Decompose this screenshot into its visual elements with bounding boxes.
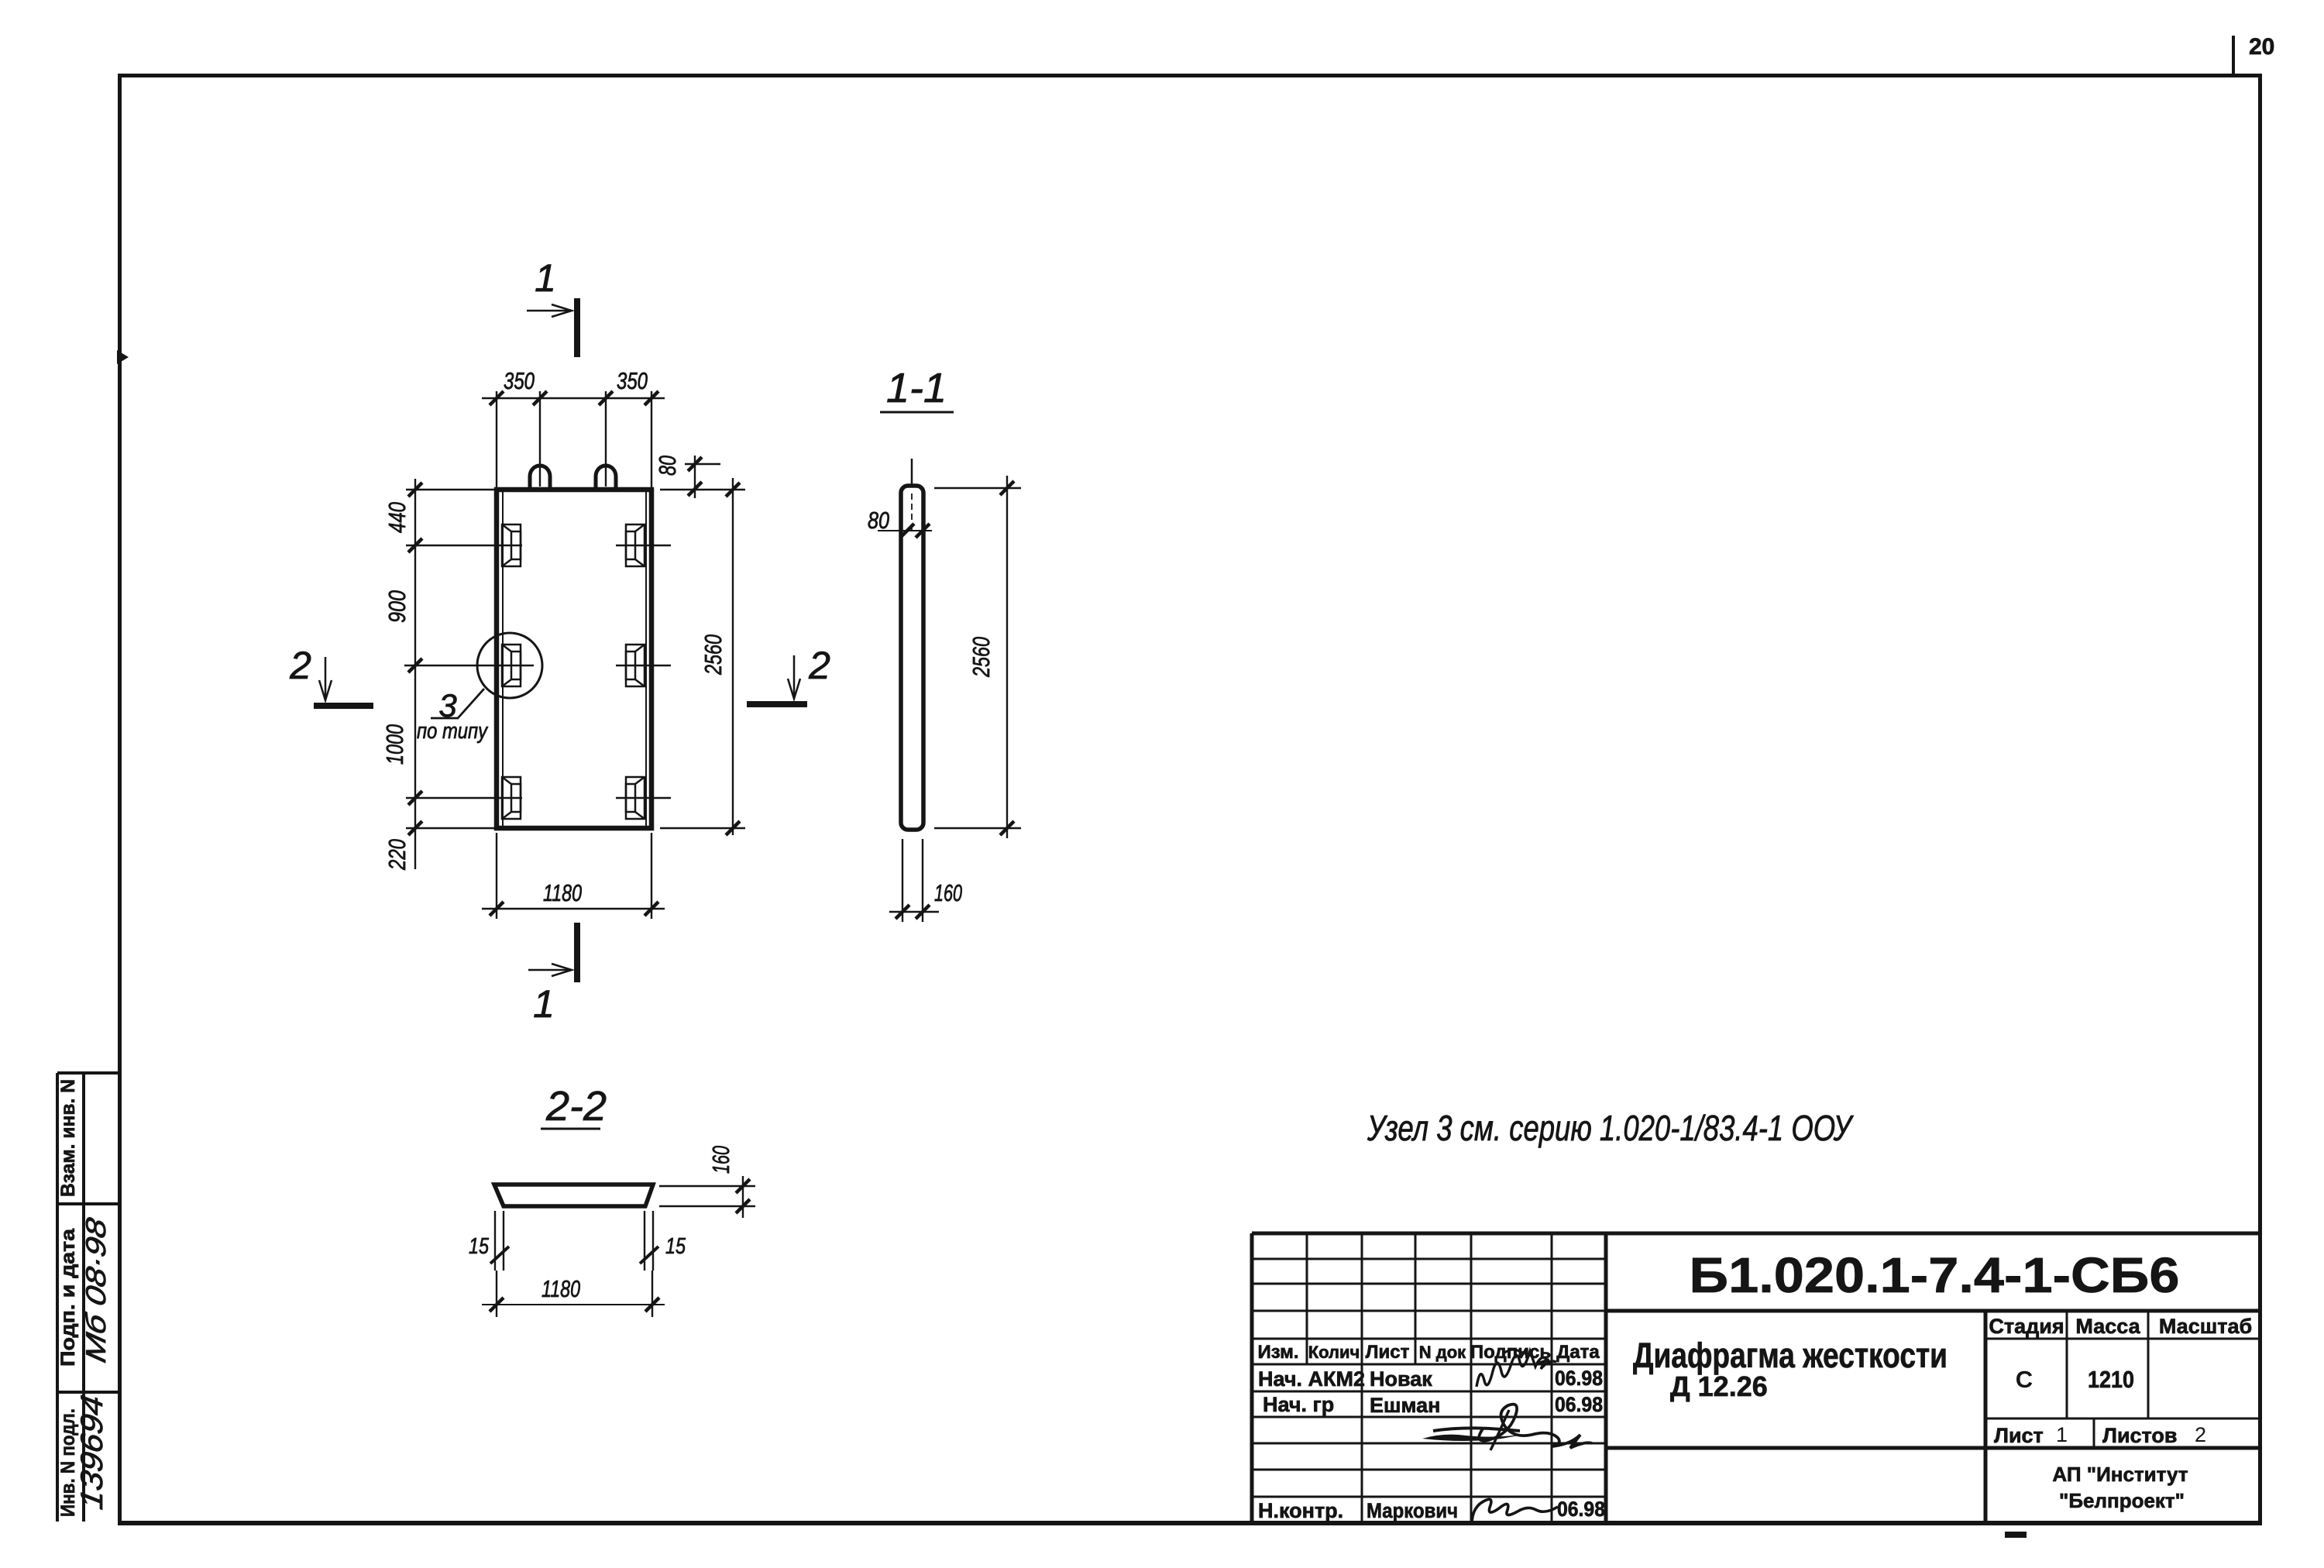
- svg-text:Узел 3 см. серию 1.020-1/83.4-: Узел 3 см. серию 1.020-1/83.4-1 ООУ: [1367, 1108, 1854, 1148]
- sheet frame left border: [118, 74, 122, 1525]
- embedded plate mid-right: [626, 645, 645, 686]
- centerlines of plates: [404, 545, 671, 798]
- svg-text:Ешман: Ешман: [1370, 1394, 1440, 1417]
- fold mark on left border: [117, 350, 129, 364]
- svg-text:15: 15: [665, 1234, 686, 1259]
- svg-text:06.98: 06.98: [1557, 1498, 1605, 1521]
- dim 80 section: [878, 530, 932, 531]
- panel section outline: [901, 486, 923, 830]
- svg-text:1210: 1210: [2088, 1366, 2134, 1393]
- svg-text:2560: 2560: [968, 637, 995, 678]
- svg-text:по типу: по типу: [417, 719, 488, 744]
- svg-text:Лист: Лист: [1366, 1342, 1410, 1363]
- embedded plate top-left: [502, 524, 521, 566]
- stage/mass/scale columns: [1985, 1311, 2260, 1448]
- svg-text:1180: 1180: [541, 1275, 580, 1302]
- svg-text:160: 160: [934, 879, 962, 906]
- sheet frame top border: [118, 74, 2262, 77]
- dashed loop axis: [911, 493, 913, 530]
- svg-text:Нач. гр: Нач. гр: [1263, 1393, 1334, 1416]
- left sidebar table: [57, 1073, 118, 1522]
- embedded plate bottom-left: [502, 777, 521, 819]
- svg-text:139694: 139694: [74, 1393, 109, 1512]
- svg-text:Изм.: Изм.: [1257, 1342, 1298, 1363]
- svg-text:80: 80: [654, 456, 681, 476]
- dim 2560 section: [934, 476, 1021, 838]
- svg-text:Взам. инв. N: Взам. инв. N: [57, 1079, 79, 1197]
- smudge stamp in empty row: [1422, 1434, 1528, 1441]
- embedded plate mid-left: [502, 645, 521, 686]
- dim 1180 bottom: [482, 1304, 665, 1305]
- svg-text:3: 3: [438, 687, 456, 724]
- inner edge line left: [502, 491, 504, 827]
- svg-text:Масштаб: Масштаб: [2159, 1315, 2252, 1338]
- top dimension line 350 350: [482, 391, 665, 488]
- underline of 1-1: [880, 411, 954, 414]
- signature of Ешман: [1479, 1405, 1592, 1448]
- svg-text:Подп. и дата: Подп. и дата: [57, 1228, 79, 1367]
- dim 15 left: [495, 1211, 504, 1317]
- svg-text:06.98: 06.98: [1555, 1367, 1603, 1390]
- section mark 2 left: [314, 703, 373, 709]
- svg-text:Маркович: Маркович: [1367, 1499, 1458, 1522]
- lifting loop left: [530, 466, 550, 487]
- svg-text:80: 80: [868, 507, 889, 534]
- section mark 1 top: [574, 298, 580, 357]
- svg-text:2: 2: [289, 644, 311, 687]
- svg-text:Новак: Новак: [1370, 1367, 1432, 1391]
- svg-text:Листов: Листов: [2102, 1424, 2178, 1447]
- underline of 2-2: [541, 1128, 600, 1130]
- svg-text:2: 2: [2195, 1423, 2206, 1446]
- svg-text:Диафрагма жесткости: Диафрагма жесткости: [1633, 1336, 1948, 1375]
- svg-text:2560: 2560: [700, 634, 727, 676]
- svg-text:1: 1: [2056, 1423, 2068, 1446]
- panel cross section trapezoid: [494, 1185, 653, 1206]
- dim 160 section bottom: [889, 839, 939, 922]
- TITLE BLOCK: [1252, 1233, 2260, 1538]
- svg-text:Дата: Дата: [1556, 1342, 1600, 1363]
- signature of Маркович: [1472, 1499, 1558, 1525]
- bottom dimension 1180: [482, 833, 665, 919]
- detail circle node 3: [477, 633, 542, 698]
- section mark 1 bottom: [574, 923, 580, 982]
- svg-text:Д 12.26: Д 12.26: [1670, 1370, 1768, 1402]
- svg-text:06.98: 06.98: [1555, 1393, 1603, 1416]
- svg-text:С: С: [2016, 1366, 2033, 1393]
- svg-text:N док: N док: [1419, 1343, 1466, 1362]
- svg-text:20: 20: [2249, 34, 2274, 60]
- loop wire on top: [911, 459, 913, 485]
- panel outline: [497, 490, 651, 828]
- svg-text:Б1.020.1-7.4-1-СБ6: Б1.020.1-7.4-1-СБ6: [1690, 1247, 2180, 1303]
- svg-text:900: 900: [383, 590, 411, 623]
- svg-text:1-1: 1-1: [886, 365, 947, 411]
- svg-text:1: 1: [535, 256, 556, 300]
- inner edge line right: [645, 491, 647, 827]
- left dimension line 440 900 1000 220: [406, 479, 497, 869]
- left table of stamp: row lines: [1252, 1259, 1606, 1497]
- section mark 2 right: [747, 701, 807, 707]
- right dimension 2560: [660, 478, 745, 835]
- svg-text:2-2: 2-2: [545, 1083, 607, 1130]
- sheet frame bottom border: [118, 1521, 2262, 1525]
- sheet frame right border: [2258, 74, 2262, 1525]
- dim 15 right: [645, 1211, 653, 1317]
- svg-text:220: 220: [383, 839, 411, 871]
- outer rect of title block: [1252, 1233, 2260, 1523]
- embedded plate bottom-right: [626, 777, 645, 819]
- svg-text:350: 350: [504, 367, 535, 394]
- page number tick top right: [2232, 36, 2235, 74]
- svg-text:"Белпроект": "Белпроект": [2059, 1489, 2185, 1512]
- svg-text:Мб 08·98: Мб 08·98: [80, 1215, 112, 1366]
- small 80 dimension top right: [685, 456, 720, 498]
- small smudge below org name: [2005, 1532, 2027, 1538]
- leader line to node 3: [431, 689, 484, 718]
- dim 160 right: [659, 1176, 755, 1218]
- svg-text:Н.контр.: Н.контр.: [1258, 1499, 1343, 1522]
- svg-text:Колич: Колич: [1308, 1343, 1360, 1362]
- svg-text:Масса: Масса: [2075, 1315, 2140, 1338]
- svg-text:Стадия: Стадия: [1989, 1315, 2064, 1338]
- svg-text:2: 2: [808, 644, 830, 687]
- svg-text:Нач. АКМ2: Нач. АКМ2: [1258, 1367, 1365, 1391]
- left table of stamp: verticals: [1307, 1233, 1552, 1522]
- svg-text:440: 440: [383, 502, 411, 533]
- lifting loop right: [596, 466, 616, 487]
- signature of Новак: [1477, 1351, 1556, 1387]
- svg-text:1: 1: [533, 982, 555, 1026]
- svg-text:1000: 1000: [381, 724, 408, 765]
- svg-text:15: 15: [469, 1234, 490, 1259]
- svg-text:1180: 1180: [543, 879, 582, 906]
- embedded plate top-right: [626, 524, 645, 566]
- svg-text:Лист: Лист: [1994, 1424, 2044, 1447]
- svg-text:350: 350: [617, 367, 648, 394]
- svg-text:160: 160: [707, 1146, 734, 1174]
- svg-text:АП "Институт: АП "Институт: [2052, 1463, 2188, 1486]
